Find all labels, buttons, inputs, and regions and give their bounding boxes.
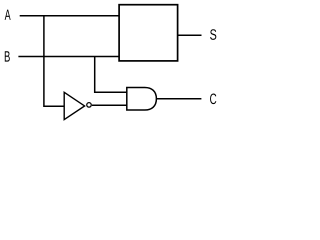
wire C (AND output to C) — [156, 98, 201, 100]
node B label — [5, 51, 10, 61]
wire (B tap down to AND gate top input) — [95, 57, 127, 93]
AND gate U3 — [127, 88, 157, 111]
wire A (input A to box) — [20, 15, 120, 17]
wire (NOT output to AND gate bottom input) — [92, 104, 127, 106]
wire B (input B to box) — [18, 56, 119, 58]
block U1 (box) — [119, 5, 178, 61]
node C label — [210, 94, 216, 105]
wire S (box output to S) — [178, 34, 202, 36]
NOT gate U2 (inverter triangle) — [64, 92, 84, 119]
node S label — [210, 29, 216, 40]
NOT gate U2 output bubble — [87, 103, 92, 108]
wire (A tap down to NOT gate input) — [44, 16, 64, 107]
node A label — [5, 10, 11, 20]
